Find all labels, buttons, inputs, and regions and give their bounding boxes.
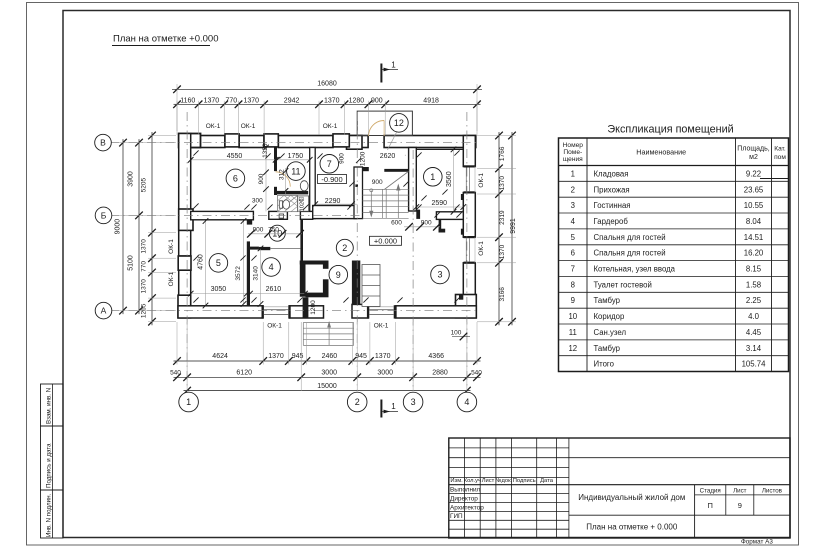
svg-text:1370: 1370 bbox=[141, 279, 148, 294]
down arrow bbox=[370, 191, 372, 217]
svg-text:3140: 3140 bbox=[253, 266, 260, 281]
window W7 right bbox=[464, 236, 476, 238]
svg-text:Экспликация помещений: Экспликация помещений bbox=[607, 124, 733, 136]
svg-text:770: 770 bbox=[225, 97, 237, 104]
misc wall corner ticks bbox=[193, 150, 198, 155]
svg-text:945: 945 bbox=[292, 353, 304, 360]
svg-text:8.04: 8.04 bbox=[746, 217, 762, 226]
svg-text:3000: 3000 bbox=[377, 369, 393, 376]
svg-text:2: 2 bbox=[342, 243, 347, 253]
svg-text:2590: 2590 bbox=[432, 200, 448, 207]
svg-text:540: 540 bbox=[471, 369, 482, 376]
svg-text:23.65: 23.65 bbox=[744, 185, 764, 194]
svg-text:Туалет гостевой: Туалет гостевой bbox=[594, 280, 652, 289]
svg-text:ГИП: ГИП bbox=[450, 513, 463, 520]
svg-text:Сан.узел: Сан.узел bbox=[594, 328, 627, 337]
svg-text:600: 600 bbox=[391, 219, 402, 226]
svg-text:План на отметке +0.000: План на отметке +0.000 bbox=[113, 34, 219, 45]
sink room11 bbox=[300, 181, 308, 191]
toilet room8: floor hatch bbox=[277, 195, 297, 211]
entrance door tan arc bbox=[369, 121, 385, 137]
svg-text:1280: 1280 bbox=[349, 97, 365, 104]
svg-text:3166: 3166 bbox=[499, 287, 506, 302]
svg-text:1370: 1370 bbox=[499, 176, 506, 191]
svg-text:ОК-1: ОК-1 bbox=[267, 323, 282, 330]
room1 bottom wall bbox=[436, 212, 463, 220]
svg-text:ОК-1: ОК-1 bbox=[478, 173, 485, 188]
couch room3 bbox=[362, 265, 380, 307]
svg-text:ОК-1: ОК-1 bbox=[168, 239, 175, 254]
pier notches right wall bbox=[461, 194, 464, 200]
svg-text:16.20: 16.20 bbox=[744, 249, 764, 258]
svg-text:6120: 6120 bbox=[236, 369, 252, 376]
svg-text:Подпись: Подпись bbox=[513, 478, 536, 484]
svg-text:3: 3 bbox=[411, 397, 416, 407]
window W3 top bbox=[333, 134, 349, 147]
svg-text:7: 7 bbox=[327, 159, 332, 169]
svg-text:1370: 1370 bbox=[244, 97, 260, 104]
room3 left wall (couch wall) bbox=[352, 261, 360, 305]
pier left of entrance door bbox=[347, 136, 363, 150]
svg-text:1370: 1370 bbox=[324, 97, 340, 104]
toilet door tan arc bbox=[288, 199, 301, 212]
svg-text:2: 2 bbox=[571, 185, 575, 194]
svg-text:3900: 3900 bbox=[128, 171, 135, 187]
svg-text:12: 12 bbox=[568, 344, 577, 353]
svg-text:540: 540 bbox=[170, 369, 181, 376]
stair break diagonal bbox=[384, 172, 408, 190]
svg-text:Итого: Итого bbox=[594, 360, 615, 369]
svg-text:Инв. N подлин.: Инв. N подлин. bbox=[46, 493, 53, 537]
svg-text:4918: 4918 bbox=[423, 97, 439, 104]
svg-text:100: 100 bbox=[451, 330, 462, 337]
wardrobe stub below room1 door bbox=[439, 219, 442, 232]
svg-text:м2: м2 bbox=[749, 154, 758, 161]
svg-text:4760: 4760 bbox=[197, 254, 204, 270]
svg-text:Гардероб: Гардероб bbox=[594, 217, 629, 226]
svg-text:ОК-1: ОК-1 bbox=[206, 123, 221, 130]
room7 bottom thick wall bbox=[313, 206, 357, 219]
svg-text:1370: 1370 bbox=[204, 97, 220, 104]
left wall pilaster at axis Б bbox=[179, 209, 193, 230]
svg-text:Лист: Лист bbox=[733, 487, 747, 494]
svg-text:Тамбур: Тамбур bbox=[594, 344, 621, 353]
svg-text:2610: 2610 bbox=[266, 286, 282, 293]
right outer wall segments bbox=[463, 136, 475, 167]
svg-text:Номер: Номер bbox=[563, 142, 584, 149]
leader from circle 12 bbox=[388, 132, 397, 150]
svg-text:Спальня для гостей: Спальня для гостей bbox=[594, 249, 666, 258]
svg-text:11: 11 bbox=[291, 166, 300, 176]
svg-text:Архитектор: Архитектор bbox=[450, 504, 484, 511]
svg-text:ОК-1: ОК-1 bbox=[374, 323, 389, 330]
svg-text:3000: 3000 bbox=[321, 369, 337, 376]
svg-text:Изм.: Изм. bbox=[450, 478, 463, 484]
window W4 left bbox=[178, 256, 191, 270]
room11 door tan arc bbox=[276, 172, 291, 187]
thicker top wall over room 1 bbox=[413, 148, 463, 150]
toilet bowl bbox=[279, 201, 282, 208]
up arrow bbox=[397, 186, 399, 219]
svg-text:1: 1 bbox=[571, 169, 575, 178]
svg-text:4.45: 4.45 bbox=[746, 328, 762, 337]
svg-text:4550: 4550 bbox=[227, 153, 243, 160]
svg-text:5100: 5100 bbox=[128, 255, 135, 271]
svg-text:1: 1 bbox=[391, 402, 396, 411]
stairwell top thin wall bbox=[384, 169, 408, 172]
partition room5 | room4 bbox=[247, 241, 250, 305]
bottom axis circles bbox=[179, 392, 199, 412]
svg-text:Кладовая: Кладовая bbox=[594, 169, 629, 178]
svg-text:8: 8 bbox=[571, 280, 575, 289]
corridor10 right partition bbox=[300, 219, 303, 260]
svg-text:П: П bbox=[708, 501, 713, 510]
svg-text:14.51: 14.51 bbox=[744, 233, 764, 242]
svg-text:Кат.: Кат. bbox=[774, 146, 786, 153]
svg-text:1766: 1766 bbox=[499, 146, 506, 161]
svg-text:9: 9 bbox=[336, 270, 341, 280]
svg-text:Дата: Дата bbox=[540, 478, 554, 484]
svg-text:4: 4 bbox=[464, 397, 469, 407]
svg-text:2460: 2460 bbox=[322, 353, 338, 360]
svg-text:-0.900: -0.900 bbox=[321, 175, 342, 184]
wall room11 | room7 bbox=[310, 148, 316, 219]
svg-text:1370: 1370 bbox=[268, 353, 284, 360]
svg-text:1020: 1020 bbox=[300, 199, 306, 212]
window W1 top bbox=[225, 134, 239, 147]
svg-text:Тамбур: Тамбур bbox=[594, 296, 621, 305]
svg-text:4: 4 bbox=[269, 262, 274, 272]
svg-text:2880: 2880 bbox=[432, 369, 448, 376]
svg-text:770: 770 bbox=[141, 261, 148, 272]
svg-text:1370: 1370 bbox=[141, 239, 148, 254]
svg-text:1: 1 bbox=[391, 61, 396, 70]
svg-text:пом: пом bbox=[774, 154, 786, 161]
svg-text:12: 12 bbox=[394, 118, 404, 128]
window W8 bottom bbox=[262, 305, 264, 318]
svg-text:8.15: 8.15 bbox=[746, 265, 762, 274]
svg-text:3: 3 bbox=[437, 270, 442, 280]
svg-text:Подпись и дата: Подпись и дата bbox=[46, 443, 53, 488]
svg-text:3.14: 3.14 bbox=[746, 344, 762, 353]
svg-text:В: В bbox=[100, 138, 106, 148]
svg-text:План на отметке + 0.000: План на отметке + 0.000 bbox=[586, 523, 678, 532]
svg-text:5: 5 bbox=[571, 233, 576, 242]
svg-text:Коридор: Коридор bbox=[594, 312, 625, 321]
room4 top partition + door leaf bbox=[250, 247, 259, 250]
room1 wall L-jog bbox=[416, 210, 420, 219]
svg-text:10.55: 10.55 bbox=[744, 201, 764, 210]
svg-text:Площадь,: Площадь, bbox=[737, 146, 769, 153]
svg-text:1370: 1370 bbox=[375, 353, 391, 360]
svg-text:1.58: 1.58 bbox=[746, 280, 761, 289]
svg-text:2290: 2290 bbox=[325, 198, 341, 205]
tambour9 walls bbox=[300, 261, 306, 297]
svg-text:Б: Б bbox=[101, 211, 107, 221]
svg-text:ОК-1: ОК-1 bbox=[323, 123, 338, 130]
svg-text:2319: 2319 bbox=[499, 210, 506, 225]
svg-text:Спальня для гостей: Спальня для гостей bbox=[594, 233, 666, 242]
svg-text:4366: 4366 bbox=[428, 353, 444, 360]
partition room11 | toilet8 bbox=[277, 191, 308, 195]
svg-text:Формат А3: Формат А3 bbox=[741, 539, 773, 546]
svg-text:6: 6 bbox=[571, 249, 575, 258]
porch left descending wall bbox=[303, 297, 309, 318]
interior dim lines with ticks bbox=[188, 157, 194, 163]
svg-text:2.25: 2.25 bbox=[746, 296, 762, 305]
svg-text:900: 900 bbox=[372, 179, 383, 186]
svg-text:Выполнил: Выполнил bbox=[450, 487, 481, 494]
svg-text:9: 9 bbox=[738, 501, 742, 510]
svg-text:15000: 15000 bbox=[317, 383, 337, 390]
svg-text:900: 900 bbox=[371, 97, 383, 104]
svg-text:1200: 1200 bbox=[310, 300, 317, 315]
svg-text:Прихожая: Прихожая bbox=[594, 185, 630, 194]
svg-text:Поме-: Поме- bbox=[563, 149, 582, 156]
svg-text:ОК-1: ОК-1 bbox=[478, 241, 485, 256]
left wall corner block at A bbox=[178, 295, 191, 318]
svg-text:2: 2 bbox=[355, 397, 360, 407]
window W6 right bbox=[464, 165, 476, 167]
svg-text:10: 10 bbox=[568, 312, 577, 321]
svg-text:9.22: 9.22 bbox=[746, 169, 761, 178]
stairwell left wall bbox=[354, 167, 363, 219]
svg-text:1750: 1750 bbox=[288, 153, 304, 160]
svg-text:3050: 3050 bbox=[211, 286, 227, 293]
left axis circles bbox=[95, 134, 112, 151]
svg-text:Листов: Листов bbox=[762, 487, 783, 494]
stairwell right wall / room1 left bbox=[409, 148, 417, 212]
window W2 top bbox=[264, 134, 278, 147]
svg-text:5: 5 bbox=[216, 258, 221, 268]
left margin boxes bbox=[41, 384, 64, 538]
svg-text:Взам. инв. N: Взам. инв. N bbox=[46, 388, 53, 424]
title block bbox=[449, 438, 790, 538]
svg-text:щения: щения bbox=[563, 156, 583, 163]
svg-text:№док.: №док. bbox=[495, 478, 512, 484]
svg-text:5205: 5205 bbox=[141, 177, 148, 192]
top outer wall segments bbox=[179, 136, 225, 148]
svg-text:Стадия: Стадия bbox=[700, 487, 721, 494]
bottom outer wall segments bbox=[178, 306, 263, 318]
svg-text:1160: 1160 bbox=[180, 97, 195, 104]
svg-text:Индивидуальный жилой дом: Индивидуальный жилой дом bbox=[578, 493, 685, 502]
svg-text:105.74: 105.74 bbox=[742, 360, 767, 369]
washing machine bbox=[298, 196, 309, 211]
svg-text:.: . bbox=[405, 152, 406, 158]
svg-text:ОК-1: ОК-1 bbox=[241, 123, 256, 130]
svg-text:9: 9 bbox=[571, 296, 575, 305]
svg-text:4: 4 bbox=[571, 217, 576, 226]
svg-text:Гостинная: Гостинная bbox=[594, 201, 631, 210]
svg-text:А: А bbox=[101, 306, 107, 316]
svg-text:4624: 4624 bbox=[212, 353, 228, 360]
axis grid dash-dot lines bbox=[186, 112, 188, 391]
svg-text:9991: 9991 bbox=[510, 218, 517, 234]
axis Б load-bearing wall segments bbox=[191, 211, 254, 219]
svg-text:312: 312 bbox=[278, 169, 285, 180]
svg-text:+0.000: +0.000 bbox=[374, 237, 397, 246]
svg-text:Наименование: Наименование bbox=[636, 148, 686, 157]
svg-text:1: 1 bbox=[186, 397, 191, 407]
svg-text:Директор: Директор bbox=[450, 495, 478, 502]
svg-text:300: 300 bbox=[252, 197, 263, 204]
svg-text:900: 900 bbox=[339, 153, 346, 164]
svg-text:1370: 1370 bbox=[499, 244, 506, 259]
svg-text:7: 7 bbox=[571, 265, 575, 274]
svg-text:2620: 2620 bbox=[380, 153, 396, 160]
svg-text:3560: 3560 bbox=[446, 171, 453, 187]
top-left corner pilaster bbox=[179, 134, 201, 148]
right wall corner blocks bbox=[456, 295, 477, 318]
threshold square in Б wall bbox=[279, 214, 284, 218]
svg-text:1: 1 bbox=[430, 172, 435, 182]
svg-text:6: 6 bbox=[233, 174, 238, 184]
svg-text:Лист: Лист bbox=[482, 478, 495, 484]
svg-text:3572: 3572 bbox=[235, 266, 242, 281]
svg-text:16080: 16080 bbox=[317, 81, 337, 88]
partition room6 | room11 bbox=[274, 148, 277, 172]
svg-text:9000: 9000 bbox=[115, 219, 122, 235]
left outer wall segments bbox=[179, 134, 191, 257]
window W9 bottom bbox=[367, 305, 369, 318]
pilaster below Б wall bbox=[247, 220, 252, 225]
svg-text:Котельная, узел ввода: Котельная, узел ввода bbox=[594, 265, 676, 274]
svg-text:3: 3 bbox=[571, 201, 575, 210]
svg-text:2942: 2942 bbox=[284, 97, 300, 104]
tambour 12 thin outline bbox=[357, 111, 412, 135]
svg-text:4.0: 4.0 bbox=[748, 312, 760, 321]
svg-text:11: 11 bbox=[569, 328, 577, 337]
svg-text:ОК-1: ОК-1 bbox=[168, 271, 175, 286]
svg-text:Кол.уч: Кол.уч bbox=[464, 478, 481, 484]
